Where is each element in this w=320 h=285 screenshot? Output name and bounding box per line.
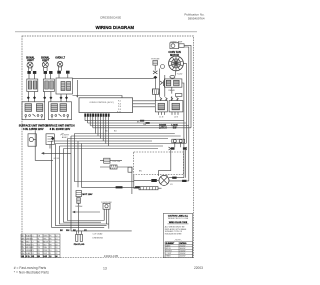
wire bus L5 (75, 133, 175, 135)
svg-text:P1: P1 (32, 244, 34, 246)
wire plug prong feeds (77, 231, 82, 235)
wire fuse down (154, 65, 156, 71)
junction diamond wireA (153, 76, 157, 79)
svg-text:CRE3530CASE: CRE3530CASE (100, 15, 121, 19)
dual lamp component (172, 139, 185, 143)
svg-text:P4: P4 (32, 253, 34, 255)
wire relay to bus (182, 83, 184, 121)
wire indicator drop (35, 130, 53, 160)
switch A contacts (25, 115, 27, 117)
latch box R (169, 101, 183, 112)
svg-text:WH: WH (66, 230, 70, 232)
svg-text:GRAY: GRAY (26, 243, 32, 246)
svg-text:P8: P8 (49, 244, 51, 246)
oven light (159, 175, 169, 185)
wire fuse to boxL (154, 79, 156, 89)
wire door harness (82, 144, 141, 188)
inline connectors on bus (140, 120, 150, 124)
broil element bar (139, 187, 158, 190)
wire chain (110, 161, 132, 194)
wire motor bottom (175, 71, 177, 76)
header rule (15, 31, 197, 33)
terminal box T2 (43, 79, 54, 92)
svg-text:- NOTE -: - NOTE - (174, 239, 182, 241)
svg-text:24: 24 (55, 255, 57, 258)
connector light2 (44, 71, 53, 74)
svg-text:L1: L1 (32, 235, 34, 237)
connector light3 (57, 71, 69, 74)
oven control EOC (79, 98, 133, 113)
part number text (103, 253, 121, 258)
svg-text:L1 N: L1 N (159, 116, 164, 118)
hatched element (152, 89, 159, 94)
svg-text:* = Non-Illustrated Parts: * = Non-Illustrated Parts (14, 270, 49, 274)
svg-text:TOD 250: TOD 250 (112, 161, 121, 163)
svg-text:WIRING DIAGRAM: WIRING DIAGRAM (96, 25, 135, 30)
wire motor contacts (169, 177, 184, 179)
wire light stub (166, 175, 168, 176)
svg-text:ORG: ORG (43, 235, 48, 237)
svg-text:YL-BU: YL-BU (177, 74, 183, 76)
chain hatched element (110, 165, 117, 169)
wire element right (158, 187, 162, 189)
svg-text:22: 22 (55, 253, 57, 255)
wire bus L8 (52, 140, 153, 142)
svg-text:P9: P9 (49, 247, 51, 249)
wire bus L3 (90, 125, 189, 127)
svg-text:13023-C05: 13023-C05 (104, 254, 119, 258)
junction diamonds C (60, 96, 69, 99)
svg-text:20: 20 (55, 250, 57, 252)
svg-text:WIRES PRIOR TO USE: WIRES PRIOR TO USE (168, 218, 189, 220)
junction diamonds B (43, 96, 52, 99)
latch pin stubs (159, 112, 179, 115)
svg-text:8 IN. 2100W 120V: 8 IN. 2100W 120V (50, 128, 71, 131)
infinite switch B (49, 102, 72, 120)
oven lamp (170, 43, 179, 49)
connector arrows row (160, 97, 178, 100)
wire bus L1 (85, 120, 184, 122)
svg-text:P5: P5 (49, 235, 51, 237)
svg-text:P24 PLUG: P24 PLUG (74, 243, 85, 246)
svg-text:GY-14: GY-14 (54, 158, 59, 160)
wire relay down (171, 87, 173, 100)
door switch (103, 203, 110, 209)
wire oven light feed B (73, 96, 123, 98)
wire T1 to switch A (28, 92, 34, 102)
relay side marks (160, 81, 164, 87)
wire junction left arrow (44, 152, 71, 154)
svg-text:YEL: YEL (43, 238, 46, 240)
svg-text:OVEN CONTROL (EOC): OVEN CONTROL (EOC) (89, 102, 113, 104)
svg-text:11: 11 (49, 253, 51, 255)
svg-text:16: 16 (55, 241, 57, 243)
svg-text:BK WH: BK WH (76, 206, 83, 208)
svg-text:YL: YL (38, 238, 40, 240)
wire bus L4 (93, 127, 191, 129)
indicator assembly box (28, 134, 36, 146)
svg-text:P7: P7 (49, 241, 51, 243)
svg-text:18: 18 (55, 244, 57, 246)
right bus verticals (183, 121, 185, 178)
svg-text:DRESSING: DRESSING (93, 238, 104, 240)
motor plug oval (170, 76, 175, 79)
svg-text:22003: 22003 (194, 266, 203, 270)
signal light 3 (57, 61, 63, 67)
wire bus L2 (88, 122, 187, 124)
lamp side label (179, 44, 184, 48)
svg-text:L2: L2 (32, 241, 34, 243)
signal light 1 (27, 62, 33, 68)
svg-text:6 IN. 1250W 120V: 6 IN. 1250W 120V (23, 128, 44, 131)
vent circle (161, 65, 165, 69)
latch box L (155, 101, 167, 112)
wire bus L6 (71, 135, 181, 137)
wire vent drops (160, 69, 165, 97)
oven light connector (151, 179, 157, 182)
color code table (21, 234, 60, 258)
junction diamond pilot (51, 137, 55, 141)
pilot switch box (46, 134, 54, 145)
door dashed enclosure (134, 152, 184, 175)
svg-text:CUT LEAD: CUT LEAD (93, 233, 103, 236)
wire arrow left (74, 211, 100, 213)
notes table (165, 242, 193, 258)
wire EOC feed arrow (76, 80, 78, 97)
wire T2 to switch A/B (45, 92, 51, 102)
border frame (22, 36, 194, 258)
lock hatched bar (77, 198, 81, 204)
svg-text:R-W: R-W (43, 253, 47, 255)
wire bus L7 (68, 138, 169, 140)
harness connector blobs (116, 186, 140, 188)
wire A lamp feed (73, 78, 154, 80)
svg-text:P-1: P-1 (118, 101, 121, 103)
junction box corner (128, 167, 132, 172)
switch B contacts (51, 115, 53, 117)
wire lock to plug (78, 203, 80, 233)
infinite switch A (22, 102, 45, 120)
wire pilot drop (49, 145, 51, 149)
svg-text:13: 13 (49, 256, 51, 258)
svg-text:1500W: 1500W (180, 255, 186, 257)
color code table text (21, 234, 57, 258)
wire light1 leads (28, 68, 31, 72)
wire labels bottom bus (60, 230, 88, 232)
lock motor box (76, 191, 82, 197)
wire dual lamp drops (175, 143, 181, 147)
wire T3 to switch B (61, 94, 67, 102)
wire bus L11 (64, 148, 159, 150)
svg-text:P6: P6 (49, 238, 51, 240)
door switch drops (104, 209, 109, 228)
svg-text:REAR: REAR (166, 254, 172, 257)
signal light 2 (42, 62, 48, 68)
svg-text:LIGHT: LIGHT (27, 60, 34, 62)
terminal box T1 (27, 79, 38, 92)
thermal fuse (153, 61, 158, 66)
svg-text:P3: P3 (32, 250, 34, 252)
notes box (163, 213, 192, 257)
svg-text:12: 12 (55, 235, 57, 237)
connector light1 (27, 71, 36, 74)
junction diamonds A (27, 96, 36, 99)
wire stubs into latch boxes (161, 99, 178, 102)
svg-text:OVEN LT: OVEN LT (55, 57, 65, 59)
wire EOC pin drops (85, 117, 108, 146)
svg-text:13: 13 (103, 266, 107, 270)
svg-text:P2: P2 (32, 247, 34, 249)
relay box RB (164, 79, 182, 87)
terminal box T3 (56, 78, 73, 94)
svg-text:B-W: B-W (43, 256, 47, 258)
wire EOC right exits (133, 101, 156, 107)
left drop wires (52, 141, 93, 227)
svg-text:5995409764: 5995409764 (188, 16, 205, 20)
svg-text:TH FUSE: TH FUSE (151, 58, 160, 60)
svg-text:10: 10 (49, 250, 51, 252)
EOC connector pins (84, 114, 109, 117)
wire bus L10 (60, 145, 164, 147)
wire light2 leads (44, 67, 47, 71)
svg-text:P-6: P-6 (118, 106, 121, 108)
wire light3 leads (59, 67, 62, 71)
wire bus L9 (56, 143, 187, 145)
connector pair fuse (153, 71, 157, 74)
svg-text:14: 14 (55, 238, 57, 240)
dual lamp arrows (169, 147, 187, 150)
svg-text:MOT 120V: MOT 120V (82, 194, 93, 196)
side label box (175, 94, 182, 97)
svg-text:P-12: P-12 (117, 111, 121, 113)
svg-text:L2 N: L2 N (174, 116, 179, 118)
wire lamp to bus (184, 45, 191, 127)
chain box (104, 158, 110, 163)
convection motor (169, 56, 184, 71)
main harness plug (76, 234, 83, 241)
svg-text:P-3: P-3 (118, 103, 121, 105)
svg-text:18: 18 (55, 247, 57, 249)
svg-text:INSULATION WIRE: INSULATION WIRE (165, 233, 182, 236)
